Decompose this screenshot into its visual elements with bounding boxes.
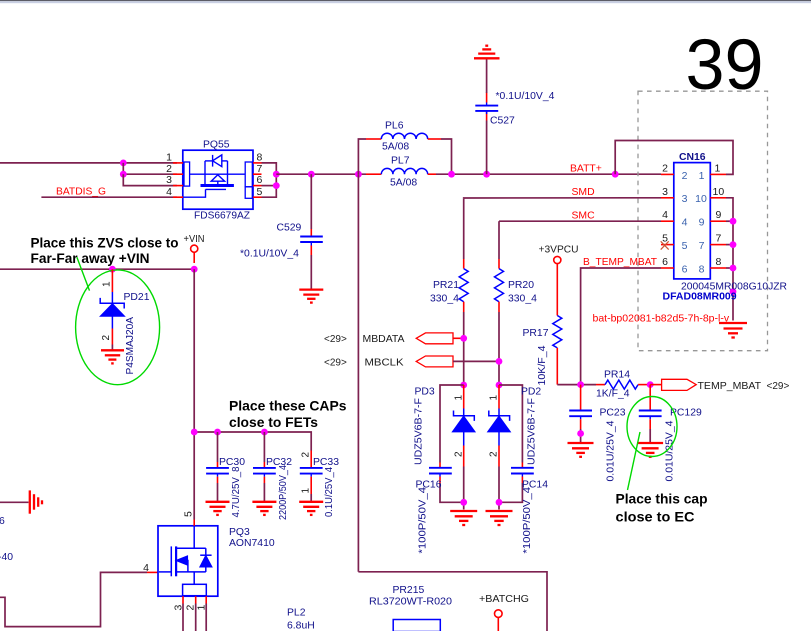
node junction PD2 bottom bbox=[496, 499, 503, 506]
diode PD3 pin1 stub bbox=[463, 385, 465, 409]
svg-text:3: 3 bbox=[662, 186, 668, 198]
svg-text:1: 1 bbox=[489, 395, 500, 401]
node junction pin6 bbox=[273, 182, 280, 189]
C529 bottom stub bbox=[310, 246, 312, 256]
inductor PL7 right stub bbox=[428, 173, 436, 175]
svg-text:8: 8 bbox=[716, 256, 722, 268]
PC14 bottom stub bbox=[521, 477, 523, 484]
annotation ellipse around PC129 bbox=[627, 397, 677, 457]
wire PC16 cage bottom bbox=[440, 483, 464, 502]
svg-text:PR21: PR21 bbox=[433, 280, 459, 291]
wire CN16 pin10 down to ground bbox=[726, 198, 733, 321]
svg-text:6: 6 bbox=[682, 264, 688, 276]
ground below PC30 bbox=[206, 502, 230, 515]
svg-text:7: 7 bbox=[699, 240, 705, 252]
wire pin8 tie bbox=[726, 267, 733, 269]
svg-text:6.8uH: 6.8uH bbox=[287, 621, 315, 631]
capacitor PC14 bbox=[511, 468, 534, 477]
wire PC14 cage bottom bbox=[499, 483, 522, 502]
svg-text:CN16: CN16 bbox=[679, 152, 706, 163]
svg-text:9: 9 bbox=[716, 209, 722, 221]
wire pin6 tie segment bbox=[262, 185, 277, 187]
svg-text:10: 10 bbox=[695, 193, 707, 205]
transistor PQ3 internal N-MOSFET symbol bbox=[159, 526, 212, 596]
svg-text:5A/08: 5A/08 bbox=[390, 177, 417, 188]
ground sideways on left wire bbox=[30, 490, 42, 513]
svg-text:*0.1U/10V_4: *0.1U/10V_4 bbox=[240, 248, 299, 259]
ground below PC32 bbox=[252, 502, 276, 515]
capacitor PC129 top stub bbox=[649, 385, 651, 411]
PQ55 right pin stubs bbox=[253, 163, 262, 197]
wire CN16 pin1 loop to BATT+ bbox=[615, 141, 733, 175]
svg-text:1K/F_4: 1K/F_4 bbox=[596, 388, 630, 399]
svg-text:2: 2 bbox=[301, 452, 312, 458]
port arrow TEMP_MBAT bbox=[662, 379, 697, 390]
C529 top stub bbox=[310, 229, 312, 236]
svg-text:-40: -40 bbox=[0, 552, 13, 563]
C527 upper stub to ground bbox=[486, 93, 488, 103]
svg-text:C529: C529 bbox=[277, 223, 302, 234]
svg-text:3: 3 bbox=[682, 193, 688, 205]
PQ3 pin5 stub bbox=[193, 520, 195, 526]
svg-text:PQ55: PQ55 bbox=[203, 140, 230, 151]
svg-text:Far-Far away +VIN: Far-Far away +VIN bbox=[31, 250, 150, 266]
svg-text:+3VPCU: +3VPCU bbox=[539, 245, 579, 256]
svg-text:*100P/50V_4: *100P/50V_4 bbox=[522, 487, 533, 554]
svg-text:6: 6 bbox=[662, 256, 668, 268]
node junction PD3 top bbox=[460, 382, 467, 389]
svg-text:<29>: <29> bbox=[767, 381, 790, 392]
PQ3 pin3 stub bbox=[182, 596, 184, 603]
top window border bbox=[0, 0, 811, 3]
svg-text:BATDIS_G: BATDIS_G bbox=[56, 186, 106, 197]
svg-text:1: 1 bbox=[301, 488, 312, 494]
annotation ellipse around PD21 bbox=[76, 270, 160, 385]
wire pin7 tie bbox=[726, 244, 733, 246]
wire BATT+ continuation to CN16 bbox=[436, 173, 661, 175]
wire BATDIS_G to pin4 bbox=[41, 196, 177, 198]
svg-text:DFAD08MR009: DFAD08MR009 bbox=[663, 291, 737, 303]
svg-text:*100P/50V_4: *100P/50V_4 bbox=[418, 487, 429, 554]
capacitor C529 lead from main wire bbox=[310, 174, 312, 229]
wire bottom left U run bbox=[0, 572, 147, 626]
ground below CN16 bbox=[719, 323, 747, 338]
node junction +VIN bbox=[191, 266, 198, 273]
svg-text:P4SMAJ20A: P4SMAJ20A bbox=[125, 317, 136, 375]
PR20 top stub bbox=[498, 259, 500, 269]
capacitor C527 lead wire bbox=[486, 121, 488, 175]
svg-text:1: 1 bbox=[102, 281, 113, 287]
annotation green pointer to PD21 bbox=[77, 257, 90, 290]
node junction long vertical tap bbox=[355, 171, 362, 178]
no-connect X on CN16 pin 5 bbox=[661, 241, 669, 249]
node junction pin9 bbox=[730, 218, 737, 225]
C529 wire to ground bbox=[310, 255, 312, 290]
ground below PC23 bbox=[568, 443, 594, 457]
capacitor PC32 bbox=[253, 468, 276, 477]
capacitor PC129 bbox=[639, 411, 662, 420]
inductor PL6 coil bbox=[381, 133, 427, 139]
svg-text:PR14: PR14 bbox=[604, 370, 630, 381]
svg-text:TEMP_MBAT: TEMP_MBAT bbox=[698, 381, 762, 392]
wire net to PQ55 pin1 from left edge bbox=[0, 162, 177, 164]
node junction pin7 bbox=[273, 171, 280, 178]
svg-text:4: 4 bbox=[662, 209, 668, 221]
svg-text:4: 4 bbox=[682, 217, 688, 229]
ground below PC33 bbox=[299, 502, 323, 515]
svg-text:+BATCHG: +BATCHG bbox=[479, 594, 529, 605]
svg-text:PD2: PD2 bbox=[521, 386, 541, 397]
node junction pin7 bbox=[730, 241, 737, 248]
node junction CN16 pin1 loop tap bbox=[612, 171, 619, 178]
inductor PL6 loop left riser bbox=[358, 139, 366, 174]
svg-text:330_4: 330_4 bbox=[430, 294, 459, 305]
svg-text:C527: C527 bbox=[490, 116, 515, 127]
svg-text:bat-bp02081-b82d5-7h-8p-l-v: bat-bp02081-b82d5-7h-8p-l-v bbox=[593, 313, 730, 325]
PC33 wire to ground bbox=[310, 494, 312, 502]
svg-text:PL2: PL2 bbox=[287, 608, 306, 619]
svg-text:PL6: PL6 bbox=[385, 121, 404, 132]
wire left edge to side ground bbox=[0, 501, 29, 503]
svg-text:PR215: PR215 bbox=[393, 585, 425, 596]
wire long vertical feeder bbox=[357, 174, 359, 572]
diode PD21 pin1 stub bbox=[111, 269, 113, 292]
+BATCHG stub down bbox=[497, 617, 499, 631]
capacitor C527 bottom stub bbox=[486, 111, 488, 120]
PC33 pin2 stub bbox=[310, 451, 312, 468]
zener diode PD2 bbox=[488, 409, 510, 446]
svg-text:MBDATA: MBDATA bbox=[363, 334, 405, 345]
wire TEMP row from PR17 bbox=[557, 384, 596, 386]
svg-text:6: 6 bbox=[0, 516, 5, 527]
svg-text:PR20: PR20 bbox=[508, 280, 534, 291]
node junction PC23 / B_TEMP bbox=[577, 381, 584, 388]
capacitor PC23 top stub bbox=[580, 385, 582, 411]
ground below PD3 bbox=[450, 511, 477, 525]
wire SMD column down to PR21 bbox=[463, 198, 465, 259]
wire SMC net bbox=[499, 220, 661, 222]
PD3 pin2 stub bbox=[463, 446, 465, 467]
svg-text:AON7410: AON7410 bbox=[229, 538, 275, 549]
svg-text:2: 2 bbox=[662, 162, 668, 174]
annotation pointer line to EC note bbox=[628, 432, 641, 490]
CN16 left pin stubs bbox=[661, 174, 674, 268]
PC32 wire to ground bbox=[263, 483, 265, 502]
svg-text:BATT+: BATT+ bbox=[570, 163, 602, 174]
node junction C529 tap bbox=[308, 171, 315, 178]
svg-text:5: 5 bbox=[257, 186, 263, 198]
ground flipped above C527 bbox=[474, 46, 500, 59]
wire branch down to pin3 bbox=[123, 174, 177, 185]
PQ3 pin2 stub bbox=[195, 596, 197, 603]
node junction pin8 bbox=[730, 265, 737, 272]
svg-text:8: 8 bbox=[699, 264, 705, 276]
transistor Q PQ55 package box bbox=[183, 150, 253, 209]
svg-text:2: 2 bbox=[489, 451, 500, 457]
PQ3 pin1 stub bbox=[205, 596, 207, 603]
capacitor PC32 branch wire bbox=[263, 432, 265, 462]
wire PD21 to ground bbox=[111, 345, 113, 351]
svg-text:MBCLK: MBCLK bbox=[365, 357, 404, 368]
PC14 top stub bbox=[521, 463, 523, 468]
resistor PR215 body bbox=[393, 620, 440, 631]
inductor PL7 left stub bbox=[366, 173, 381, 175]
PR14 right stub bbox=[638, 384, 650, 386]
+3VPCU terminal circle bbox=[554, 256, 561, 263]
+BATCHG terminal circle bbox=[495, 610, 503, 618]
annotation text Place these CAPs close to FETs bbox=[229, 397, 347, 430]
svg-text:close to FETs: close to FETs bbox=[229, 414, 318, 430]
wire PQ3 pin1 down bbox=[205, 604, 207, 631]
PD21 pin2 stub bbox=[111, 329, 113, 345]
PR21 bottom stub bbox=[463, 302, 465, 312]
wire PC16 cage bbox=[440, 385, 464, 463]
svg-text:1: 1 bbox=[166, 151, 172, 163]
svg-text:PD3: PD3 bbox=[415, 386, 435, 397]
inductor PL6 right stub bbox=[428, 138, 441, 140]
svg-text:4: 4 bbox=[143, 562, 149, 574]
svg-text:PC33: PC33 bbox=[313, 457, 339, 468]
node junction PL6 right bbox=[448, 171, 455, 178]
wire +VIN column down bbox=[193, 269, 195, 519]
svg-text:SMC: SMC bbox=[572, 210, 596, 221]
PC32 top stub bbox=[263, 462, 265, 468]
resistor PR20 bbox=[495, 269, 504, 302]
svg-text:PQ3: PQ3 bbox=[229, 527, 250, 538]
wire SMD net bbox=[464, 197, 661, 200]
PC30 top stub bbox=[217, 462, 219, 468]
node junction PD2 top bbox=[496, 382, 503, 389]
svg-text:+VIN: +VIN bbox=[184, 234, 205, 245]
svg-text:3: 3 bbox=[166, 174, 172, 186]
svg-text:1: 1 bbox=[715, 162, 721, 174]
ground below PD21 bbox=[101, 350, 124, 363]
connector CN16 body bbox=[674, 163, 711, 279]
page number 39 bbox=[686, 26, 764, 105]
wire decoupling rail bbox=[194, 432, 311, 451]
capacitor PC33 bbox=[300, 468, 323, 477]
svg-text:PC30: PC30 bbox=[219, 457, 245, 468]
svg-text:4: 4 bbox=[166, 186, 172, 198]
svg-text:SMD: SMD bbox=[572, 187, 595, 198]
CN16 inner pin numbers bbox=[682, 170, 707, 276]
node junction below connector bbox=[730, 288, 737, 295]
wire PD3 to ground bbox=[463, 467, 465, 510]
svg-text:*0.1U/10V_4: *0.1U/10V_4 bbox=[496, 91, 555, 102]
port arrow MBCLK bbox=[416, 356, 453, 367]
svg-text:FDS6679AZ: FDS6679AZ bbox=[194, 211, 251, 222]
node junction pin2 branch bbox=[120, 171, 127, 178]
ground below C529 bbox=[299, 290, 323, 303]
dashed outline box around CN16 bbox=[638, 91, 768, 351]
transistor PQ3 body box bbox=[158, 526, 218, 596]
port arrow MBDATA bbox=[416, 333, 453, 344]
inductor PL6 loop right riser bbox=[441, 139, 452, 174]
+VIN terminal stub bbox=[193, 252, 195, 263]
svg-text:2: 2 bbox=[454, 451, 465, 457]
wire PD2 to ground bbox=[498, 467, 500, 510]
svg-text:2: 2 bbox=[682, 170, 688, 182]
svg-text:5: 5 bbox=[183, 511, 195, 517]
svg-text:PL7: PL7 bbox=[391, 156, 410, 167]
wire C527 to top ground bbox=[486, 58, 488, 93]
svg-text:6: 6 bbox=[257, 174, 263, 186]
svg-text:4.7U/25V_8: 4.7U/25V_8 bbox=[231, 466, 242, 517]
svg-text:5A/08: 5A/08 bbox=[382, 142, 409, 153]
svg-text:330_4: 330_4 bbox=[508, 294, 537, 305]
svg-text:RL3720WT-R020: RL3720WT-R020 bbox=[369, 597, 452, 608]
svg-text:0.1U/25V_4: 0.1U/25V_4 bbox=[324, 467, 335, 517]
svg-text:10: 10 bbox=[713, 186, 725, 198]
svg-text:7: 7 bbox=[257, 163, 263, 175]
wire MBCLK to node bbox=[453, 360, 499, 362]
svg-text:2: 2 bbox=[166, 163, 172, 175]
svg-text:B_TEMP_MBAT: B_TEMP_MBAT bbox=[583, 257, 658, 268]
PC30 bottom stub bbox=[217, 477, 219, 483]
PC16 top stub bbox=[439, 463, 441, 468]
ground below PD2 bbox=[486, 511, 513, 525]
svg-text:10K/F_4: 10K/F_4 bbox=[537, 345, 548, 385]
svg-text:0.01U/25V_4: 0.01U/25V_4 bbox=[606, 420, 617, 481]
capacitor C527 bbox=[475, 103, 498, 115]
inductor PL7 coil bbox=[381, 168, 427, 174]
svg-text:5: 5 bbox=[682, 240, 688, 252]
svg-text:PD21: PD21 bbox=[124, 292, 150, 303]
CN16 outer pin numbers right bbox=[713, 162, 725, 268]
zener diode PD3 bbox=[453, 409, 475, 446]
svg-text:8: 8 bbox=[257, 151, 263, 163]
svg-text:Place this cap: Place this cap bbox=[616, 491, 708, 507]
wire PQ3 pin3 down bbox=[182, 604, 184, 631]
wire PR21 to PD3 bbox=[463, 312, 465, 385]
wire node to port bbox=[650, 384, 661, 386]
node junction PD21 tap bbox=[109, 266, 116, 273]
wire bottom feeder horizontal bbox=[358, 572, 547, 631]
PR20 bottom stub bbox=[498, 302, 500, 312]
resistor PR14 bbox=[605, 380, 638, 389]
wire branch down to pin2 bbox=[123, 163, 177, 174]
wire main BATT+ horizontal run bbox=[276, 173, 366, 175]
PR14 left stub bbox=[596, 384, 605, 386]
PC30 wire to ground bbox=[217, 483, 219, 502]
capacitor PC30 branch wire bbox=[217, 432, 219, 462]
resistor PR17 bbox=[553, 316, 562, 348]
zener diode PD21 bbox=[100, 292, 124, 329]
PQ55 pin numbers right 8 7 6 5 bbox=[257, 151, 263, 197]
svg-text:1: 1 bbox=[699, 170, 705, 182]
svg-text:PC23: PC23 bbox=[600, 407, 626, 418]
wire tying pins 8,7,6,5 bbox=[262, 163, 277, 197]
capacitor PC23 bbox=[569, 411, 592, 420]
inductor PL6 left stub bbox=[366, 138, 381, 140]
wire SMC column down to PR20 bbox=[498, 221, 500, 259]
svg-text:UDZ5V6B-7-F: UDZ5V6B-7-F bbox=[414, 398, 425, 465]
svg-text:39: 39 bbox=[686, 26, 764, 105]
CN16 outer pin numbers left bbox=[662, 162, 668, 268]
svg-text:PR17: PR17 bbox=[523, 328, 549, 339]
annotation text Place this ZVS close to Far-Far away +VIN bbox=[31, 235, 179, 267]
PC16 bottom stub bbox=[439, 477, 441, 484]
svg-text:<29>: <29> bbox=[324, 357, 347, 368]
node junction on pin1 wire bbox=[120, 160, 127, 167]
wire PR20 to PD2 bbox=[498, 312, 500, 385]
wire B_TEMP_MBAT net bbox=[581, 268, 661, 385]
capacitor C529 bbox=[300, 237, 323, 246]
PC33 pin1 stub bbox=[310, 477, 312, 494]
capacitor PC30 bbox=[206, 468, 229, 477]
svg-text:Place this ZVS close to: Place this ZVS close to bbox=[31, 235, 179, 251]
CN16 right pin stubs bbox=[710, 174, 726, 268]
node junction MBDATA bbox=[460, 335, 467, 342]
PR21 top stub bbox=[463, 259, 465, 269]
wire +VIN horizontal from left edge bbox=[0, 268, 194, 270]
wire +3VPCU down to PR17 bbox=[556, 264, 558, 316]
node junction PC129 / TEMP_MBAT bbox=[647, 381, 654, 388]
node junction rail at +VIN column bbox=[191, 429, 198, 436]
PC32 bottom stub bbox=[263, 477, 265, 483]
node junction C527 tap bbox=[483, 171, 490, 178]
PD2 pin2 stub bbox=[498, 446, 500, 467]
ground below PC129 bbox=[637, 443, 663, 457]
+VIN terminal circle bbox=[191, 245, 198, 252]
svg-text:9: 9 bbox=[699, 217, 705, 229]
node junction PC32 bbox=[261, 429, 268, 436]
transistor PQ55 internal P-MOSFET symbol bbox=[183, 155, 245, 197]
PQ55 left pin stubs bbox=[173, 163, 183, 197]
node junction PD3 bottom bbox=[460, 499, 467, 506]
svg-text:<29>: <29> bbox=[324, 334, 347, 345]
node junction MBCLK bbox=[496, 358, 503, 365]
node junction PC23 bottom bbox=[577, 430, 584, 437]
svg-text:Place these CAPs: Place these CAPs bbox=[229, 397, 347, 413]
svg-text:7: 7 bbox=[716, 233, 722, 245]
wire PC14 cage bbox=[499, 385, 522, 463]
resistor PR21 bbox=[459, 269, 468, 302]
svg-text:close to EC: close to EC bbox=[616, 509, 695, 525]
PQ55 pin numbers left 1 2 3 4 bbox=[166, 151, 172, 197]
capacitor PC16 bbox=[429, 468, 452, 477]
annotation text Place this cap close to EC bbox=[616, 491, 708, 525]
wire pin9 tie bbox=[726, 220, 733, 222]
svg-text:2: 2 bbox=[101, 335, 112, 341]
PC23 bottom stub bbox=[580, 419, 582, 429]
PQ3 pin4 stub bbox=[147, 571, 158, 573]
PC129 bottom stub bbox=[649, 419, 651, 429]
svg-text:2200P/50V_4: 2200P/50V_4 bbox=[278, 465, 289, 520]
wire PQ3 pin2 down bbox=[195, 604, 197, 631]
svg-text:1: 1 bbox=[454, 395, 465, 401]
svg-text:UDZ5V6B-7-F: UDZ5V6B-7-F bbox=[527, 398, 538, 465]
wire MBDATA to node bbox=[453, 337, 464, 339]
PR17 bottom stub bbox=[556, 348, 558, 385]
node junction PC30 bbox=[214, 429, 221, 436]
diode PD2 pin1 stub bbox=[498, 385, 500, 409]
